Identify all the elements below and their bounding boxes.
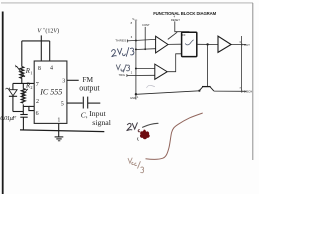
wire bottom rail [13, 111, 24, 113]
svg-text:TRIG: TRIG [119, 73, 125, 77]
wire THRES [127, 39, 155, 41]
handwritten long curve [146, 113, 203, 159]
svg-text:7: 7 [36, 82, 39, 88]
wire to transistor base [206, 44, 208, 86]
ground [55, 136, 64, 138]
svg-text:8: 8 [38, 66, 41, 72]
op-amp output buffer [218, 36, 231, 52]
wire ground rail [20, 130, 104, 132]
svg-text:CONT: CONT [142, 23, 150, 27]
capacitor 0.01uF [20, 114, 27, 116]
wire R2 top lead [22, 83, 24, 88]
wire Vcc/3 node [136, 68, 155, 70]
svg-text:3: 3 [62, 78, 65, 84]
handwritten small c tail [137, 138, 138, 141]
wire 2Vcc/3 node [136, 48, 156, 51]
wire pin2 jog [23, 106, 34, 110]
wire divider chain [135, 20, 137, 94]
wire pin5 out [67, 102, 83, 104]
svg-text:OUT: OUT [244, 43, 250, 47]
op-amp comparator A [156, 36, 168, 53]
wire compB out [167, 54, 181, 72]
wire V+ lead [40, 35, 42, 41]
svg-text:1: 1 [57, 117, 60, 123]
wire pin3 out [67, 79, 79, 81]
svg-text:FUNCTIONAL BLOCK DIAGRAM: FUNCTIONAL BLOCK DIAGRAM [153, 11, 216, 16]
wire R1 bottom lead [21, 78, 23, 83]
wire GND rail [136, 91, 199, 95]
wire R2 bottom lead [22, 104, 24, 114]
wire RESET [175, 21, 189, 32]
handwritten Vcc/3 bottom [128, 158, 144, 173]
top border line [1, 2, 253, 4]
wire DISCH [214, 90, 247, 92]
wire OUT [231, 44, 246, 46]
flip-flop U2 [182, 32, 197, 56]
wire mid rail pin7 [13, 82, 34, 84]
handwritten dash [143, 123, 158, 127]
svg-text:DISCH: DISCH [244, 89, 252, 93]
wire R1 top lead [21, 41, 23, 67]
diode D1 [12, 83, 14, 89]
handwritten slash near comparator A [168, 32, 177, 39]
svg-text:4: 4 [50, 65, 53, 71]
svg-text:(12V): (12V) [45, 27, 59, 34]
capacitor C input [82, 97, 84, 109]
svg-text:5: 5 [61, 101, 64, 107]
svg-text:RESET: RESET [171, 18, 180, 22]
handwritten curve in FF [185, 40, 193, 45]
svg-text:FF: FF [183, 34, 187, 37]
svg-text:0.01μF: 0.01μF [0, 115, 17, 122]
op-amp comparator B [155, 64, 167, 79]
handwritten Vcc/3 middle [116, 65, 129, 73]
wire TRIG [127, 74, 155, 76]
resistor R1 [20, 67, 24, 79]
svg-text:1: 1 [30, 71, 32, 76]
wire block right edge [241, 36, 243, 91]
svg-text:2: 2 [36, 99, 39, 105]
handwritten faint curl [147, 85, 155, 88]
svg-text:Input: Input [89, 109, 106, 118]
wire top rail [22, 40, 50, 42]
transistor Q1 discharge [202, 86, 211, 88]
wire GND pin lead [135, 94, 137, 99]
op IC 555 box U1 [34, 61, 67, 123]
red blob scribble [140, 129, 150, 139]
handwritten 2Vcc/3 upper [111, 47, 134, 57]
left border bar [2, 12, 4, 195]
wire pin8 lead [40, 41, 42, 61]
svg-text:C,: C, [81, 111, 88, 120]
resistor R2 [21, 89, 25, 103]
wire FF out [197, 43, 218, 45]
svg-text:THRES: THRES [115, 38, 126, 42]
svg-text:2: 2 [30, 85, 32, 90]
wire compA out [168, 43, 182, 45]
handwritten subscript c red-dark [138, 130, 140, 132]
handwritten 2Vc bottom [127, 123, 138, 131]
wire pin4 lead [49, 41, 51, 61]
svg-text:output: output [79, 83, 100, 92]
wire pin1 lead [58, 123, 60, 136]
svg-text:GND: GND [130, 96, 136, 100]
right border line [252, 3, 254, 160]
svg-text:signal: signal [92, 118, 111, 127]
svg-text:IC 555: IC 555 [39, 88, 62, 97]
svg-text:6: 6 [36, 111, 39, 117]
